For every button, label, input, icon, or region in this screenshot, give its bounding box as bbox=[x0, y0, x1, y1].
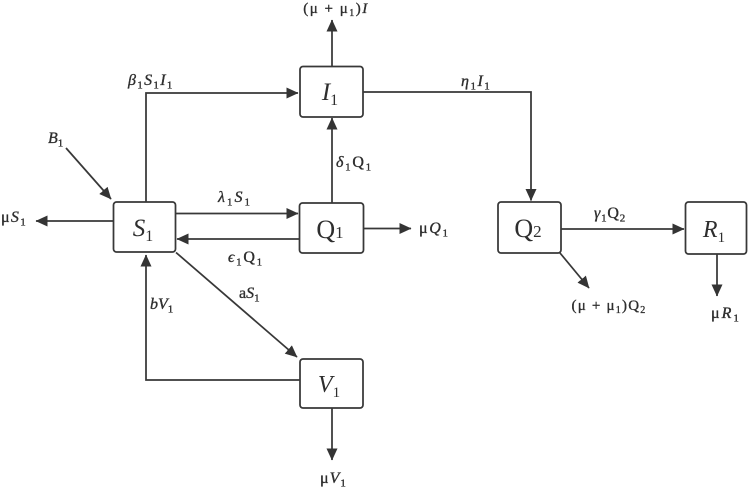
arrow gamma1 Q2 from Q2 to R1 bbox=[561, 228, 684, 230]
svg-text:γ1Q2: γ1Q2 bbox=[594, 205, 626, 225]
svg-text:μS1: μS1 bbox=[1, 209, 27, 229]
arrow delta1 Q1 from Q1 to I1 bbox=[331, 118, 333, 203]
svg-text:η1I1: η1I1 bbox=[461, 73, 491, 93]
arrow epsilon1 Q1 from Q1 to S1 bbox=[177, 238, 300, 240]
svg-text:B1: B1 bbox=[48, 130, 63, 150]
svg-text:bV1: bV1 bbox=[150, 296, 173, 316]
arrow a S1 from S1 to V1 bbox=[176, 253, 297, 358]
arrow mu S1 out bbox=[36, 220, 114, 222]
svg-text:ϵ1Q1: ϵ1Q1 bbox=[228, 249, 264, 269]
svg-text:λ1S1: λ1S1 bbox=[217, 189, 252, 209]
arrow mu V1 out bbox=[331, 408, 333, 460]
svg-text:aS1: aS1 bbox=[239, 285, 260, 305]
arrow beta1 S1 I1 from S1 to I1 bbox=[146, 93, 298, 202]
box V1 bbox=[300, 359, 363, 408]
arrow mu R1 out bbox=[716, 254, 718, 296]
svg-text:(μ + μ1)I: (μ + μ1)I bbox=[303, 1, 369, 19]
box Q1 bbox=[300, 203, 364, 253]
arrow b V1 from V1 to S1 bbox=[146, 255, 300, 380]
arrow lambda1 S1 from S1 to Q1 bbox=[176, 213, 299, 215]
arrow death of Q2 (mu+mu1)Q2 bbox=[560, 253, 589, 288]
svg-text:μQ1: μQ1 bbox=[419, 220, 450, 240]
box Q2 bbox=[498, 202, 561, 253]
box R1 bbox=[686, 202, 747, 254]
arrow B1 into S1 bbox=[66, 148, 111, 199]
svg-text:(μ + μ1)Q2: (μ + μ1)Q2 bbox=[572, 298, 647, 316]
arrow eta1 I1 from I1 to Q2 bbox=[363, 92, 531, 201]
svg-text:μV1: μV1 bbox=[320, 470, 347, 490]
svg-text:μR1: μR1 bbox=[711, 305, 741, 325]
arrow death of I1 (mu+mu1)I bbox=[331, 20, 333, 67]
svg-text:δ1Q1: δ1Q1 bbox=[336, 154, 373, 174]
box S1 bbox=[114, 202, 176, 252]
arrow mu Q1 out bbox=[364, 228, 412, 230]
svg-text:β1S1I1: β1S1I1 bbox=[127, 72, 174, 92]
box I1 bbox=[300, 67, 363, 118]
